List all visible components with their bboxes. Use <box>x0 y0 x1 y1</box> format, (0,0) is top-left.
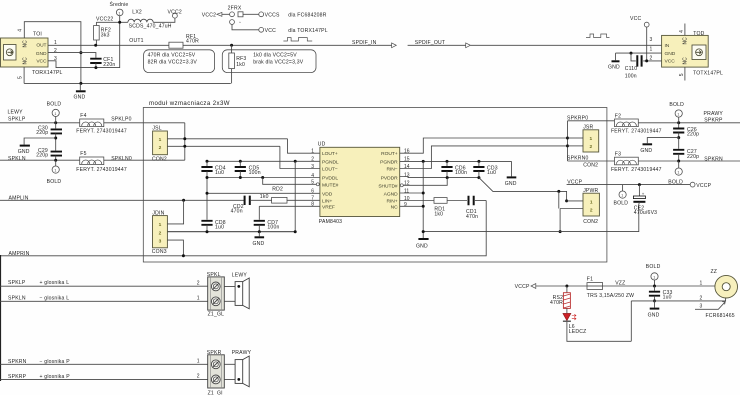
svg-text:PRAWY: PRAWY <box>704 111 724 117</box>
junction dot NC <box>422 205 425 208</box>
svg-text:220n: 220n <box>103 62 115 68</box>
junction dot VDD tap <box>206 192 209 195</box>
wire PGNDR vertical to gnd <box>422 161 424 238</box>
svg-text:RIN−: RIN− <box>387 167 398 173</box>
svg-text:OUT1: OUT1 <box>129 38 143 44</box>
junction dot CD4 bottom <box>206 176 209 179</box>
pin12 bubble SHUTD# <box>400 184 403 187</box>
wire VDD row <box>207 192 320 194</box>
junction dot CE2 top <box>638 183 641 186</box>
junction dot PVDD/jumper tie <box>557 190 560 193</box>
svg-text:470n: 470n <box>231 209 243 215</box>
svg-text:2: 2 <box>311 157 314 163</box>
svg-text:PVDDL: PVDDL <box>322 176 338 182</box>
test point BOLD lower-left <box>47 160 62 185</box>
svg-text:CON2: CON2 <box>152 157 167 163</box>
svg-text:1u0: 1u0 <box>663 295 672 301</box>
svg-text:100n: 100n <box>267 225 279 231</box>
capacitor CF1 <box>90 57 115 68</box>
junction dot SPKLP/C30 <box>54 121 57 124</box>
svg-text:TOD: TOD <box>693 31 704 37</box>
svg-text:VCCS: VCCS <box>265 13 280 19</box>
svg-text:470R: 470R <box>186 38 199 44</box>
capacitor C26 220p <box>673 123 699 138</box>
svg-text:470u/6V3: 470u/6V3 <box>634 210 657 216</box>
svg-text:5: 5 <box>679 73 685 76</box>
net arrow SPDIF_IN <box>352 40 396 48</box>
junction dot CD7 bottom <box>258 230 261 233</box>
wire jack pin2 row <box>631 298 725 341</box>
svg-text:2: 2 <box>589 144 592 150</box>
junction dot JPWR pin1 <box>565 199 568 202</box>
capacitor CE2 470u/6V3 electrolytic <box>633 185 657 217</box>
svg-text:BOLD: BOLD <box>47 179 62 185</box>
wire MUTE# route <box>263 178 317 185</box>
svg-text:3: 3 <box>700 304 703 310</box>
svg-text:MUTE#: MUTE# <box>322 182 339 188</box>
junction dot pin4/gnd row <box>79 82 82 85</box>
junction dot C27 bottom <box>677 160 680 163</box>
IC UD PAM8403 body <box>318 142 400 225</box>
wire SPKRP row <box>638 122 740 124</box>
svg-text:5: 5 <box>18 76 24 79</box>
junction dot gnd row right <box>559 230 562 233</box>
svg-text:220p: 220p <box>36 130 48 136</box>
svg-text:VCCP: VCCP <box>515 284 530 290</box>
wire tie down to gnd row <box>559 191 560 231</box>
junction dot RF3 top <box>230 44 233 47</box>
svg-text:2: 2 <box>54 48 57 54</box>
junction dot CD6 top <box>446 160 449 163</box>
junction dot C26 top <box>677 121 680 124</box>
junction dot AMPLIN/JDIN1 <box>182 199 185 202</box>
note box RF3 <box>222 50 316 73</box>
svg-text:FCR681465: FCR681465 <box>706 313 735 319</box>
junction dot JSR2 <box>566 144 569 147</box>
svg-text:100n: 100n <box>625 74 637 80</box>
wire NC row <box>400 205 424 207</box>
terminal VCCP right <box>668 179 711 189</box>
capacitor C27 220p <box>673 138 699 161</box>
svg-text:1: 1 <box>197 296 200 302</box>
svg-text:100n: 100n <box>249 170 261 176</box>
svg-text:SPKRN: SPKRN <box>704 156 723 162</box>
test point BOLD lower-right <box>675 161 682 175</box>
svg-text:220p: 220p <box>687 154 699 160</box>
svg-text:VCC2: VCC2 <box>168 10 182 16</box>
wire SPKRN to connector <box>0 363 208 365</box>
svg-text:F4: F4 <box>80 113 86 119</box>
speaker LEWY symbol <box>224 273 249 309</box>
svg-text:1: 1 <box>589 136 592 142</box>
wire AMPLIN row <box>0 199 244 201</box>
terminal VCC top-right <box>630 16 649 61</box>
jumper 2FRX <box>202 6 328 34</box>
svg-text:brak dla VCC2=3,3V: brak dla VCC2=3,3V <box>253 60 304 66</box>
svg-text:GND: GND <box>74 95 86 101</box>
svg-text:VCC: VCC <box>630 16 641 22</box>
svg-text:1k0: 1k0 <box>434 211 443 217</box>
test point BOLD upper-right <box>669 102 684 123</box>
junction dot JSR1 <box>566 137 569 140</box>
svg-text:1: 1 <box>311 149 314 155</box>
optical receiver TOI body <box>1 38 49 67</box>
svg-text:moduł wzmacniacza 2x3W: moduł wzmacniacza 2x3W <box>149 100 230 107</box>
ground symbol below UD <box>416 239 429 249</box>
svg-text:SPKLN: SPKLN <box>8 156 26 162</box>
svg-text:BOLD: BOLD <box>47 101 62 107</box>
svg-text:2: 2 <box>700 295 703 301</box>
svg-text:C110: C110 <box>625 66 638 72</box>
junction dot CD3 top <box>477 160 480 163</box>
svg-text:2: 2 <box>650 55 653 61</box>
ferrite bead F5 <box>76 151 127 173</box>
svg-text:TOI: TOI <box>33 32 42 38</box>
wire GND row bottom <box>24 82 231 84</box>
svg-text:VCC: VCC <box>665 59 676 65</box>
svg-text:1: 1 <box>653 275 655 279</box>
svg-text:1: 1 <box>677 171 679 175</box>
svg-text:RD2: RD2 <box>272 187 283 193</box>
svg-text:F3: F3 <box>615 151 621 157</box>
fix spkrn row left join <box>675 159 677 161</box>
svg-text:1: 1 <box>159 137 162 143</box>
svg-text:82R dla VCC2=3.3V: 82R dla VCC2=3.3V <box>148 60 198 66</box>
capacitor CD4 1u0 <box>201 161 225 177</box>
svg-text:^: ^ <box>239 21 241 25</box>
svg-text:CON3: CON3 <box>152 249 167 255</box>
svg-text:8: 8 <box>311 202 314 208</box>
svg-text:LOUT−: LOUT− <box>322 167 338 173</box>
wire TOD pin5 down <box>684 67 686 80</box>
ground stub left filter <box>18 138 56 155</box>
fuse F1 TRS 3,15A/250 ZW <box>587 276 634 298</box>
wire GND pin row <box>48 53 96 58</box>
wire SPKLP row <box>0 122 80 124</box>
svg-text:NC: NC <box>683 57 689 65</box>
svg-text:TOTX147PL: TOTX147PL <box>693 70 723 76</box>
wire OUT row (OUT1 / SPDIF) <box>48 44 169 46</box>
net arrow VCCP left <box>515 284 536 290</box>
capacitor CD5 100n <box>235 161 261 177</box>
wire SPKLP to connector <box>0 285 208 287</box>
svg-text:SPKRP: SPKRP <box>704 117 723 123</box>
wire SHUTD# route <box>403 178 447 186</box>
svg-text:FERYT. 2743019447: FERYT. 2743019447 <box>76 167 127 173</box>
junction dot RS2 top <box>565 285 568 288</box>
svg-text:OUT: OUT <box>36 43 46 49</box>
wire VCC22 row <box>96 21 128 23</box>
svg-text:SPKRN0: SPKRN0 <box>567 155 589 161</box>
svg-text:LEWY: LEWY <box>8 110 24 116</box>
svg-text:12: 12 <box>404 181 410 187</box>
speaker PRAWY symbol <box>224 350 251 387</box>
inductor LX2 SCDS_470_47uH <box>128 9 172 29</box>
svg-text:+ glosnika L: + glosnika L <box>40 280 70 286</box>
LED L6 LEDCZ red <box>563 308 631 341</box>
ground symbol below CD7 <box>253 232 265 248</box>
page border tick left <box>0 255 2 381</box>
wire PGNDL row <box>207 160 320 162</box>
junction dot JSL1 <box>183 137 186 140</box>
svg-text:SPKLN: SPKLN <box>8 295 26 301</box>
junction dot MUTE jog <box>261 176 264 179</box>
svg-text:F2: F2 <box>615 113 621 119</box>
test point BOLD at VCCP <box>614 185 629 207</box>
svg-text:SPKLP0: SPKLP0 <box>111 117 131 123</box>
svg-text:NC: NC <box>391 205 398 211</box>
svg-text:GND: GND <box>18 149 30 155</box>
svg-text:SPKLP: SPKLP <box>8 117 26 123</box>
ground stub right filter <box>640 138 678 154</box>
svg-text:4: 4 <box>311 173 314 179</box>
wire SPKLN0 <box>104 159 185 161</box>
svg-text:VCC2: VCC2 <box>202 13 216 19</box>
svg-text:SPKRP: SPKRP <box>8 374 27 380</box>
junction dot C33 bottom <box>653 299 656 302</box>
svg-text:1: 1 <box>118 11 120 15</box>
svg-text:2: 2 <box>159 230 162 236</box>
resistor RS2 470R <box>550 286 570 308</box>
terminal block SPKL Z1_GL <box>207 272 225 318</box>
junction dot CD8 bottom <box>206 230 209 233</box>
capacitor C110 100n <box>625 53 662 80</box>
wire JDIN pin3 jog <box>167 240 183 256</box>
svg-text:2: 2 <box>159 145 162 151</box>
UD left pin numbers <box>311 149 314 208</box>
ferrite bead F2 <box>611 113 662 134</box>
junction dot SPKLN/C29 <box>54 159 57 162</box>
svg-text:PAM8403: PAM8403 <box>319 219 342 225</box>
wire SPKRN0 row <box>568 160 615 162</box>
test point Srednie <box>110 0 129 22</box>
wire VCC pin row with step <box>48 22 120 67</box>
junction dot C110 top <box>630 52 633 55</box>
svg-text:+ glosnika P: + glosnika P <box>40 374 71 380</box>
wire to TOD IN <box>470 44 661 46</box>
junction dot JDIN3/AMPRIN <box>182 254 185 257</box>
svg-text:11: 11 <box>404 188 409 194</box>
wire JDIN pin1 jog <box>167 200 183 224</box>
capacitor CD3 1u0 <box>473 161 497 177</box>
wire LOUT- drop <box>280 146 320 168</box>
wire JSR pin1 stub <box>568 137 584 139</box>
wire VCCP to F1 <box>536 285 587 287</box>
junction dot C26/C27 <box>677 136 680 139</box>
svg-text:1: 1 <box>677 112 679 116</box>
wire VREF row <box>259 206 320 220</box>
svg-text:dla TORX147PL: dla TORX147PL <box>288 28 328 34</box>
ground symbol below C33 <box>648 301 660 319</box>
svg-text:RIN+: RIN+ <box>387 199 398 205</box>
svg-text:3k3: 3k3 <box>101 32 110 38</box>
junction dot gnd row corner <box>294 230 297 233</box>
svg-text:VREF: VREF <box>322 204 335 210</box>
UD right pin names <box>378 151 398 210</box>
svg-text:− glosnika L: − glosnika L <box>40 295 70 301</box>
wire TOI pin5 down <box>23 67 25 83</box>
terminal VCC2 <box>168 10 182 18</box>
resistor RF2 3k3 <box>94 22 111 45</box>
svg-text:F1: F1 <box>587 276 593 282</box>
svg-text:9: 9 <box>404 202 407 208</box>
capacitor C33 1u0 <box>649 286 673 301</box>
svg-text:1: 1 <box>54 169 56 173</box>
wire RF1 to RF3 junction <box>183 44 392 46</box>
svg-text:BOLD: BOLD <box>614 200 629 206</box>
svg-text:TORX147PL: TORX147PL <box>32 70 63 76</box>
UD right pin numbers <box>404 149 410 208</box>
svg-text:PVDDR: PVDDR <box>381 176 398 182</box>
wire PVDDR row <box>400 177 479 178</box>
wire SPKLP0 <box>104 122 185 124</box>
svg-text:470R: 470R <box>550 300 563 306</box>
ferrite bead F4 <box>76 113 127 135</box>
ground hang right of CD3 <box>505 161 517 187</box>
svg-text:FERYT. 2743019447: FERYT. 2743019447 <box>611 129 662 135</box>
junction dot CD5 top <box>239 160 242 163</box>
wire JPWR pin1 stub <box>567 200 583 202</box>
connector JPWR CON2 <box>583 188 599 225</box>
junction dot VCC22/testpoint <box>118 21 121 24</box>
svg-text:LOUT+: LOUT+ <box>322 151 338 157</box>
junction dot C30/C29 <box>54 137 57 140</box>
wire VCCP row <box>567 184 691 186</box>
svg-text:1: 1 <box>621 194 623 198</box>
svg-text:2FRX: 2FRX <box>228 6 242 12</box>
capacitor CD8 1u0 <box>201 220 225 232</box>
svg-text:BOLD: BOLD <box>646 264 661 270</box>
UD left pin names <box>322 151 339 210</box>
junction dot CD3 bottom <box>477 176 480 179</box>
svg-text:16: 16 <box>404 149 410 155</box>
junction dot PGNDL drop <box>294 160 297 163</box>
ground symbol bottom-left <box>74 83 86 100</box>
ferrite bead F3 <box>611 151 662 173</box>
svg-text:4: 4 <box>679 30 685 33</box>
svg-text:Z1_GI: Z1_GI <box>208 391 223 395</box>
wire LOUT+ drop <box>288 139 320 153</box>
wire LX2 to VCC2 <box>153 18 175 22</box>
resistor RF3 1k0 <box>229 45 304 83</box>
svg-text:VCCP: VCCP <box>696 183 711 189</box>
svg-text:470n: 470n <box>466 214 478 220</box>
svg-text:6: 6 <box>311 189 314 195</box>
svg-text:VCC: VCC <box>36 58 47 64</box>
svg-text:100n: 100n <box>455 170 467 176</box>
svg-text:CON2: CON2 <box>583 162 598 168</box>
svg-text:SPDIF_IN: SPDIF_IN <box>352 40 377 46</box>
wire module gnd row (left) <box>167 231 295 233</box>
svg-text:1k0 dla VCC2=5V: 1k0 dla VCC2=5V <box>253 53 297 59</box>
svg-text:SHUTD#: SHUTD# <box>378 183 398 189</box>
svg-text:UD: UD <box>318 142 326 148</box>
svg-text:NC: NC <box>23 40 29 48</box>
wire JSL vertical tie <box>184 123 186 160</box>
junction dot CD4 top <box>206 160 209 163</box>
wire SPKRP0 row <box>568 120 615 122</box>
svg-text:1: 1 <box>197 359 200 365</box>
module outline box <box>143 108 607 263</box>
wire PVDD diagonal <box>479 178 567 201</box>
wire module gnd row right <box>423 203 639 231</box>
wire RIN- to JSR <box>400 146 568 169</box>
junction dot VCC/C110 <box>645 59 648 62</box>
svg-text:AGND: AGND <box>384 191 398 197</box>
power jack ZZ FCR681465 <box>706 269 738 319</box>
resistor RD1 1k0 (series) <box>434 198 467 218</box>
wire AMPRIN row <box>0 201 486 256</box>
svg-text:3: 3 <box>650 37 653 43</box>
svg-text:GND: GND <box>36 51 47 57</box>
svg-text:SCDS_470_47uH: SCDS_470_47uH <box>129 24 172 30</box>
svg-text:14: 14 <box>404 164 410 170</box>
svg-text:220p: 220p <box>687 132 699 138</box>
ground symbol at TOD <box>608 53 620 70</box>
wire PVDDL row <box>207 178 320 220</box>
svg-text:SPDIF_OUT: SPDIF_OUT <box>415 40 445 46</box>
svg-text:2: 2 <box>197 374 200 380</box>
svg-text:BOLD: BOLD <box>669 102 684 108</box>
svg-text:GND: GND <box>665 51 676 57</box>
wire TOD pin4 up <box>684 24 686 36</box>
jumper JSL CON2 <box>152 126 167 163</box>
junction dot RF2 bottom <box>94 44 97 47</box>
svg-text:CON2: CON2 <box>583 219 598 225</box>
svg-text:1u0: 1u0 <box>487 170 496 176</box>
junction dot AGND <box>422 192 425 195</box>
svg-text:3: 3 <box>159 238 162 244</box>
svg-text:SPKLP: SPKLP <box>8 280 26 286</box>
resistor RF1 470R <box>169 34 199 48</box>
svg-text:1: 1 <box>650 47 653 53</box>
connector JDIN CON3 <box>152 210 168 255</box>
svg-text:1u0: 1u0 <box>215 170 224 176</box>
svg-text:IN: IN <box>665 43 670 49</box>
junction dot CF1 bottom <box>94 66 97 69</box>
resistor RD2 1k0 (series) <box>260 187 320 203</box>
svg-text:VZZ: VZZ <box>615 280 625 286</box>
note box 470R/82R <box>144 50 215 73</box>
svg-text:PRAWY: PRAWY <box>232 350 252 356</box>
svg-text:5: 5 <box>311 180 314 186</box>
svg-text:ROUT+: ROUT+ <box>381 151 398 157</box>
capacitor CD6 100n <box>441 161 467 177</box>
svg-text:GND: GND <box>640 148 652 154</box>
net arrow SPDIF_OUT <box>415 40 471 48</box>
svg-text:1: 1 <box>159 222 162 228</box>
wire JSL pin1 <box>167 138 287 140</box>
test point BOLD power <box>646 264 661 286</box>
wire SPKLN row <box>0 159 80 161</box>
svg-text:3: 3 <box>311 164 314 170</box>
jack pin3 switch arm <box>695 302 725 310</box>
waveform glyph right <box>586 34 610 38</box>
svg-text:F5: F5 <box>80 151 86 157</box>
junction dot gnd row / TOI GND <box>79 51 82 54</box>
wire JPWR pin2 jog <box>560 208 583 210</box>
wire ROUT+ to JSR <box>400 138 568 153</box>
svg-text:LIN+: LIN+ <box>322 198 332 204</box>
capacitor C29 220p <box>36 148 62 160</box>
svg-text:1k0: 1k0 <box>260 194 269 200</box>
svg-text:PGNDL: PGNDL <box>322 159 339 165</box>
svg-text:GND: GND <box>648 313 660 319</box>
svg-text:2: 2 <box>197 280 200 286</box>
svg-text:LX2: LX2 <box>132 9 142 15</box>
svg-text:Z1_GL: Z1_GL <box>208 312 225 318</box>
wire RIN+ row <box>400 200 434 202</box>
